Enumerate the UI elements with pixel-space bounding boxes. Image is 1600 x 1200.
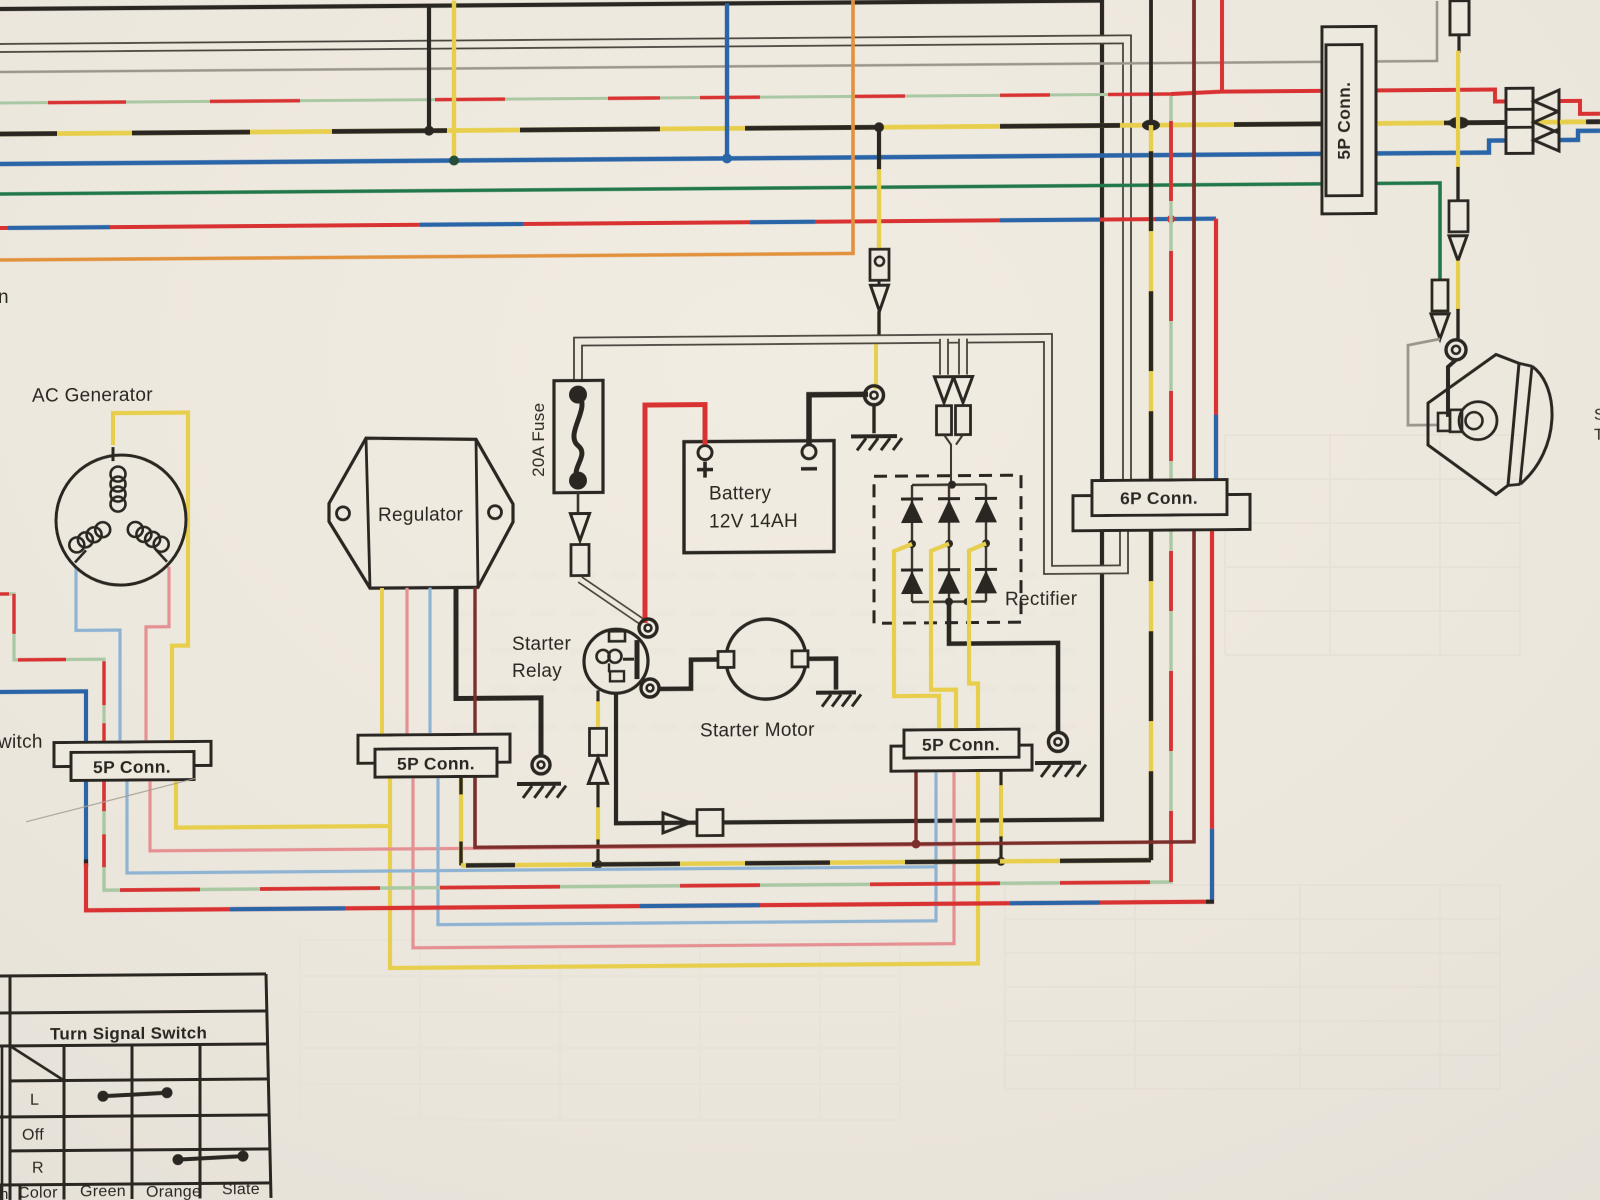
rectifier diodes: [911, 485, 913, 602]
battery plus sign: [697, 468, 713, 472]
fuse 20A body: [554, 380, 603, 492]
fuse top right: [1450, 1, 1469, 35]
tail light bulb base: [1438, 413, 1450, 431]
svg-text:Turn Signal Switch: Turn Signal Switch: [50, 1023, 207, 1043]
svg-text:R: R: [32, 1160, 44, 1177]
wire generator yellow lead: [113, 413, 188, 744]
connector box on relay line: [697, 809, 723, 835]
starter relay terminal ring bottom: [641, 679, 659, 697]
wire yellow phase 3: [969, 543, 986, 729]
svg-text:5P Conn.: 5P Conn.: [922, 734, 1000, 755]
node junction yellow-black right: [1142, 120, 1160, 131]
regulator body: [329, 437, 513, 588]
wire switch blue feed: [0, 691, 86, 744]
connector arrow red row: [1534, 90, 1559, 112]
svg-text:n: n: [0, 287, 9, 308]
rectifier ground ring: [1049, 732, 1068, 751]
wire regulator maroon lead: [473, 587, 476, 734]
wire red vertical from top edge: [1220, 0, 1224, 92]
connector 5P left inner: [71, 752, 194, 781]
connector arrow up under relay: [588, 757, 607, 783]
node junction blue: [722, 153, 732, 163]
wire fuse lead down: [577, 493, 580, 513]
wire lightblue from left conn: [127, 774, 936, 873]
node junction yellow-blue: [449, 155, 459, 165]
svg-text:6P Conn.: 6P Conn.: [1120, 488, 1198, 509]
wire pink from left conn: [150, 774, 954, 851]
connector box right chain: [1449, 201, 1468, 232]
connector arrow down: [878, 280, 881, 285]
wire red-blue upper: [1214, 219, 1218, 480]
node rectifier input: [948, 481, 956, 489]
ghost show-through: [1005, 885, 1500, 1089]
ground starter motor: [816, 690, 856, 694]
node junction on yellow-black bus: [874, 122, 884, 132]
wire yellow loop: [176, 778, 390, 828]
wire green-red bus red dashes: [48, 100, 126, 104]
AC generator stub top: [112, 447, 115, 461]
wire yellow drop: [452, 1, 456, 161]
connector 5P top-right inner: [1326, 45, 1362, 196]
wire black at yellow row: [1444, 120, 1506, 125]
wire green-red loop: [104, 515, 1171, 890]
svg-text:5P Conn.: 5P Conn.: [1334, 82, 1354, 160]
AC generator circle: [56, 455, 186, 586]
wire pink from middle conn: [413, 770, 954, 948]
wire green-red dashed bus: [0, 94, 1171, 103]
svg-text:S: S: [1594, 407, 1600, 424]
AC generator coil left: [95, 522, 110, 537]
tail light lens line: [1520, 366, 1532, 484]
tail light ring: [1446, 340, 1466, 360]
AC generator stub right: [156, 550, 167, 562]
regulator ground ring: [532, 756, 550, 774]
connector bullet box right: [956, 406, 971, 435]
svg-text:AC Generator: AC Generator: [32, 385, 153, 407]
node junction black-yellow: [424, 126, 434, 136]
node maroon junction: [912, 839, 921, 848]
wire black main bus to starter relay: [0, 1, 1102, 828]
wire bullets to rectifier: [944, 435, 951, 485]
wire relay lead lower: [596, 783, 599, 809]
wire relay yellow lead: [596, 690, 599, 703]
connector 5P right outer: [891, 745, 1032, 771]
battery positive terminal: [698, 446, 712, 460]
ground regulator: [517, 782, 561, 786]
starter relay coil: [597, 650, 610, 663]
svg-text:Regulator: Regulator: [378, 504, 463, 526]
wire harness stub to bullet connectors: [939, 339, 949, 375]
wire right conn maroon lead: [914, 770, 917, 844]
svg-text:Color: Color: [18, 1185, 58, 1200]
starter relay contact rect: [609, 631, 625, 641]
wire lightblue from middle conn: [438, 770, 936, 925]
fuse terminal bottom: [569, 471, 587, 489]
scratch mark: [26, 779, 195, 822]
connector box yellow row: [1506, 109, 1533, 135]
connector bullet triangle right: [953, 377, 972, 403]
AC generator stub left: [75, 550, 86, 562]
connector bullet with eye: [870, 249, 889, 280]
wire black tap from yellow bus: [877, 127, 881, 169]
battery ground ring: [865, 386, 884, 405]
wire regulator pink lead: [405, 588, 408, 735]
regulator inner lines: [366, 438, 370, 588]
wire blue drop: [725, 3, 729, 158]
wire yellow-black bus: [0, 122, 1600, 134]
connector 5P middle outer: [358, 734, 510, 763]
wire gray bus: [0, 1, 1437, 72]
svg-text:T: T: [1594, 427, 1600, 444]
wire yellow phase 1: [894, 544, 939, 730]
connector 6P inner: [1092, 480, 1227, 516]
wire blue bus: [0, 140, 1532, 164]
wire frame harness double line top: [0, 39, 1127, 492]
connector box green chain: [1432, 280, 1448, 311]
wire gray to bulb: [1408, 339, 1440, 425]
connector 6P outer: [1073, 494, 1250, 530]
wire fuse leads: [1457, 0, 1460, 1]
table switch R bar: [173, 1154, 184, 1165]
wire green bus to tail light: [0, 183, 1440, 291]
wire black seg: [1456, 167, 1459, 201]
starter motor terminal left: [718, 651, 734, 667]
wire red-blue loop red part: [86, 515, 1212, 911]
connector 5P top-right outer: [1322, 26, 1376, 213]
starter motor circle: [726, 619, 806, 700]
svg-text:Relay: Relay: [512, 661, 562, 682]
wire black drop at ignition: [427, 6, 431, 131]
svg-text:Starter Motor: Starter Motor: [700, 720, 815, 742]
wire red-blue bus blue dashes: [8, 225, 110, 230]
starter relay circle: [584, 629, 648, 693]
connector box under fuse: [571, 544, 589, 575]
starter relay terminal ring top: [639, 619, 657, 637]
wire battery positive red: [645, 405, 705, 623]
wire motor to relay: [659, 659, 718, 688]
rectifier bottom bus: [912, 600, 986, 603]
battery B1 box: [684, 441, 834, 553]
node rectifier output: [945, 598, 953, 606]
tail light lens curve: [1520, 366, 1552, 484]
wire maroon loop: [475, 515, 1194, 848]
connector bullet box left: [937, 406, 952, 435]
connector bullet triangle left: [934, 377, 953, 403]
wire yellow-black bus black dashes: [0, 131, 57, 136]
connector box red row: [1506, 88, 1533, 114]
svg-text:Starter: Starter: [512, 634, 571, 655]
wire yellow drop right: [1456, 51, 1460, 123]
wire motor to ground: [808, 659, 836, 690]
wire yellow to battery ground ring: [874, 343, 878, 389]
fuse element: [574, 395, 582, 481]
svg-text:20A Fuse: 20A Fuse: [529, 403, 548, 477]
wire yellow lead down: [877, 169, 881, 249]
regulator hole left: [337, 507, 350, 520]
connector box blue row: [1506, 127, 1533, 153]
node yellow row junction: [1449, 117, 1469, 129]
wire ring to ground: [872, 405, 875, 433]
battery minus sign: [801, 467, 817, 471]
fuse terminal top: [569, 385, 587, 403]
table inner left line: [19, 1185, 22, 1200]
wire rectifier output black: [949, 601, 1058, 735]
connector 5P right inner: [904, 729, 1019, 758]
connector 5P middle inner: [375, 748, 497, 777]
svg-text:Orange: Orange: [146, 1183, 201, 1200]
tail light housing: [1428, 354, 1519, 495]
wire to bulb: [1448, 360, 1456, 417]
wire link to relay terminal: [580, 579, 641, 621]
tail light bulb: [1459, 402, 1497, 440]
svg-text:Off: Off: [22, 1127, 44, 1144]
svg-text:L: L: [30, 1092, 39, 1109]
wire red-blue dashed bus: [0, 219, 1216, 228]
connector arrow blue row: [1534, 129, 1559, 151]
ground battery: [851, 434, 897, 438]
rectifier top bus: [912, 483, 986, 486]
connector arrow down under fuse: [570, 513, 589, 540]
wire switch green-red feed: [0, 593, 104, 744]
connector arrow down right chain: [1449, 236, 1467, 261]
svg-text:Battery: Battery: [709, 483, 771, 504]
svg-text:Rectifier: Rectifier: [1005, 589, 1078, 611]
table turn signal switch grid: [0, 974, 266, 976]
starter motor terminal right: [792, 651, 808, 667]
rectifier dashed box: [874, 475, 1021, 623]
wire red branch to right connector: [1171, 89, 1532, 104]
node red-blue corner tick: [1206, 900, 1214, 904]
table switch L bar: [98, 1091, 109, 1102]
svg-text:12V 14AH: 12V 14AH: [709, 511, 798, 533]
wire red-blue bus junction dot: [1167, 215, 1175, 223]
svg-text:5P Conn.: 5P Conn.: [93, 757, 171, 778]
wire regulator yellow lead: [380, 588, 384, 735]
wire yellow phase 2: [931, 544, 956, 730]
wire 6P verticals above: [1149, 0, 1153, 125]
wire regulator black lead to ground: [456, 587, 541, 757]
svg-text:Green: Green: [80, 1183, 126, 1200]
wire battery negative black: [809, 394, 868, 443]
node relay lead junction: [594, 860, 603, 869]
wire red-blue loop blue part: [84, 780, 88, 865]
starter relay lower rect: [610, 671, 624, 681]
regulator hole right: [489, 506, 502, 519]
ground rectifier: [1035, 761, 1081, 765]
starter relay contact bar: [635, 640, 640, 679]
wire regulator lightblue lead: [428, 588, 431, 735]
wire black below arrow: [877, 311, 880, 336]
wire black-yellow stub: [999, 769, 1002, 787]
svg-text:witch: witch: [0, 732, 43, 753]
wire black-yellow loop: [459, 762, 463, 865]
svg-text:5P Conn.: 5P Conn.: [397, 753, 475, 774]
wire orange bus: [0, 0, 853, 260]
connector arrow green chain: [1431, 314, 1449, 339]
svg-text:h: h: [0, 1186, 9, 1200]
wire main harness from fuse to rectifier and 6P: [578, 337, 1124, 573]
AC generator coil top: [111, 497, 126, 512]
connector arrow right: [663, 813, 690, 833]
wire yellow lower right chain: [1456, 261, 1460, 311]
wire yellow row right: [1560, 120, 1588, 125]
battery negative terminal: [802, 445, 816, 459]
connector box under relay: [590, 728, 607, 755]
wire generator pink lead: [146, 567, 169, 743]
connector 5P left outer: [54, 741, 211, 766]
svg-text:Slate: Slate: [222, 1181, 260, 1198]
wire generator lightblue lead: [76, 567, 120, 743]
connector arrow yellow row: [1534, 111, 1559, 133]
AC generator coil right: [128, 522, 143, 537]
node stub junction: [997, 857, 1006, 866]
